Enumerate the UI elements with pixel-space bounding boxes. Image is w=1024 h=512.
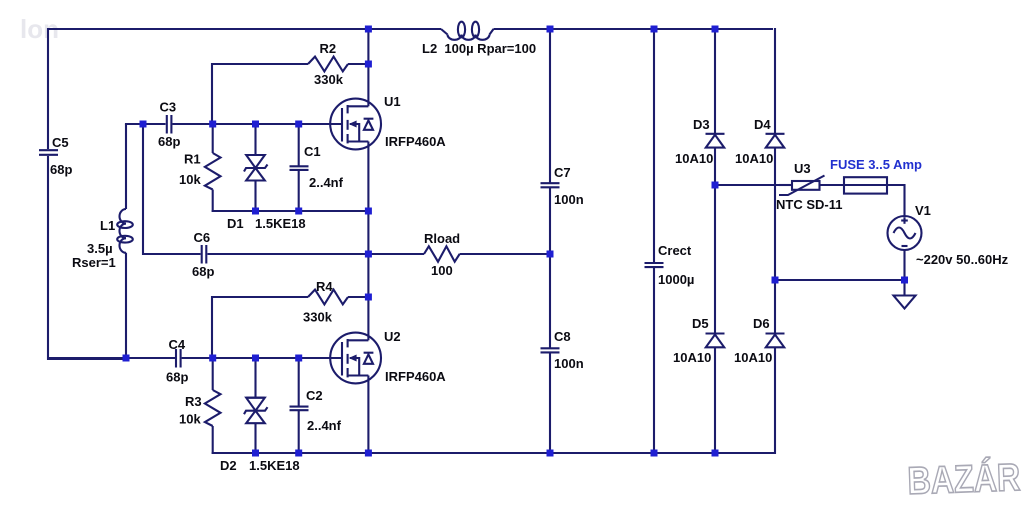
wire V1 column top	[903, 184, 905, 216]
wire top rail right of L2	[494, 28, 774, 30]
wire D6 to bottom rail corner	[774, 347, 776, 454]
wire lower gate row right	[182, 357, 342, 359]
svg-text:1.5KE18: 1.5KE18	[249, 458, 300, 473]
inductor L2	[422, 22, 536, 56]
wire V1 return row	[775, 279, 905, 281]
junction lower gate row D2	[252, 355, 259, 362]
wire D3/D5 column middle	[714, 148, 716, 334]
svg-text:10A10: 10A10	[673, 350, 711, 365]
diode D5	[673, 316, 725, 365]
capacitor C7	[541, 165, 584, 207]
wire top rail left of L2	[48, 28, 441, 30]
svg-text:10A10: 10A10	[735, 151, 773, 166]
wire R2 row	[212, 64, 308, 125]
svg-text:10k: 10k	[179, 172, 201, 187]
junction upper gate row C6 feed	[140, 121, 147, 128]
svg-text:1000µ: 1000µ	[658, 272, 694, 287]
wire left column upper	[47, 28, 49, 149]
svg-text:R2: R2	[320, 41, 337, 56]
svg-text:10A10: 10A10	[734, 350, 772, 365]
svg-text:C2: C2	[306, 388, 323, 403]
svg-text:R4: R4	[316, 279, 333, 294]
junction upper gate row D1	[252, 121, 259, 128]
resistor R1	[179, 124, 221, 212]
junction mid rail drain column	[365, 251, 372, 258]
watermark BAZAR bottom-right	[907, 455, 1021, 502]
svg-text:IRFP460A: IRFP460A	[385, 134, 446, 149]
svg-text:D1: D1	[227, 216, 244, 231]
svg-text:2..4nf: 2..4nf	[307, 418, 342, 433]
junction lower gate row R3	[209, 355, 216, 362]
junction bottom rail D2	[252, 450, 259, 457]
svg-text:U3: U3	[794, 161, 811, 176]
wire C7/C8 column bottom	[549, 353, 551, 453]
svg-text:C5: C5	[52, 135, 69, 150]
wire Crect column top	[653, 28, 655, 262]
junction upper gate row R1	[209, 121, 216, 128]
svg-text:D2: D2	[220, 458, 237, 473]
svg-text:10k: 10k	[179, 412, 201, 427]
junction lower gate row L1	[123, 355, 130, 362]
wire mid rail C6 to junction	[208, 253, 425, 255]
wire upper gate row left	[126, 124, 166, 125]
svg-text:FUSE 3..5 Amp: FUSE 3..5 Amp	[830, 157, 922, 172]
capacitor C4	[166, 337, 188, 385]
junction top rail at C7 column	[547, 26, 554, 33]
wire mid rail Rload to C7 column	[460, 253, 550, 255]
junction upper source rail drain column	[365, 208, 372, 215]
wire C7/C8 column middle	[549, 188, 551, 348]
junction top rail at Crect column	[651, 26, 658, 33]
wire D4/D6 column middle	[774, 148, 776, 334]
diode D6	[734, 316, 785, 365]
svg-text:L2 100µ Rpar=100: L2 100µ Rpar=100	[422, 41, 536, 56]
svg-text:10A10: 10A10	[675, 151, 713, 166]
MOSFET U2	[330, 329, 446, 384]
junction V1 return D6	[772, 277, 779, 284]
junction R4 drain	[365, 294, 372, 301]
capacitor Crect	[645, 243, 695, 287]
junction bottom rail C8 column	[547, 450, 554, 457]
junction upper gate row C1	[295, 121, 302, 128]
wire lower gate row left	[48, 357, 175, 359]
junction AC node D3	[712, 182, 719, 189]
svg-text:68p: 68p	[50, 162, 72, 177]
junction bottom rail D5 column	[712, 450, 719, 457]
wire upper source rail	[212, 210, 369, 212]
junction bottom rail U2 source	[365, 450, 372, 457]
capacitor C5	[39, 135, 72, 177]
wire L1 column top	[125, 124, 127, 209]
svg-text:100n: 100n	[554, 192, 584, 207]
wire C7/C8 column top	[549, 28, 551, 183]
svg-text:68p: 68p	[158, 134, 180, 149]
wire U1 drain column	[367, 29, 369, 106]
svg-text:~220v 50..60Hz: ~220v 50..60Hz	[916, 252, 1009, 267]
thermistor U3	[776, 161, 844, 212]
svg-text:330k: 330k	[303, 310, 333, 325]
junction upper source rail C1	[295, 208, 302, 215]
capacitor C6	[192, 230, 214, 279]
svg-text:D6: D6	[753, 316, 770, 331]
junction R2 drain	[365, 61, 372, 68]
svg-text:68p: 68p	[166, 370, 188, 385]
svg-text:Rser=1: Rser=1	[72, 255, 116, 270]
wire AC node row	[715, 184, 779, 186]
svg-text:D3: D3	[693, 117, 710, 132]
resistor R2	[308, 41, 348, 87]
svg-text:C4: C4	[169, 337, 186, 352]
wire C6 feed column	[143, 124, 201, 254]
svg-text:C8: C8	[554, 329, 571, 344]
junction bottom rail C2	[295, 450, 302, 457]
svg-text:1.5KE18: 1.5KE18	[255, 216, 306, 231]
svg-text:C6: C6	[194, 230, 211, 245]
capacitor C3	[158, 100, 180, 150]
fuse F1	[830, 157, 922, 194]
resistor R3	[179, 358, 221, 454]
junction mid rail C7 column	[547, 251, 554, 258]
svg-text:D4: D4	[754, 117, 771, 132]
wire R4 to drain column	[348, 296, 368, 298]
TVS diode D2	[220, 358, 300, 473]
wire Crect column bottom	[653, 268, 655, 453]
junction V1 return ground	[901, 277, 908, 284]
svg-text:Crect: Crect	[658, 243, 692, 258]
svg-text:NTC SD-11: NTC SD-11	[776, 197, 842, 212]
MOSFET U1	[330, 94, 446, 149]
diode D4	[735, 28, 785, 166]
capacitor C2	[290, 358, 342, 454]
svg-text:C1: C1	[304, 144, 321, 159]
AC source V1	[888, 203, 1009, 267]
svg-text:R1: R1	[184, 152, 201, 167]
junction top rail at D3 column	[712, 26, 719, 33]
wire D5 to bottom rail	[714, 347, 716, 453]
svg-text:D5: D5	[692, 316, 709, 331]
svg-text:3.5µ: 3.5µ	[87, 241, 113, 256]
svg-text:Rload: Rload	[424, 231, 460, 246]
wire V1 column bottom	[903, 250, 905, 296]
resistor Rload	[424, 231, 460, 278]
wire L1 column bottom	[125, 253, 127, 359]
junction top rail at drain column	[365, 26, 372, 33]
svg-text:R3: R3	[185, 394, 202, 409]
resistor R4	[303, 279, 348, 325]
svg-text:330k: 330k	[314, 72, 344, 87]
inductor L1	[72, 209, 133, 270]
svg-text:C3: C3	[160, 100, 177, 115]
svg-text:100: 100	[431, 263, 453, 278]
wire R2 to drain column	[348, 63, 368, 65]
svg-text:100n: 100n	[554, 356, 584, 371]
wire left column lower	[48, 156, 124, 359]
wire upper gate row right	[173, 123, 343, 125]
junction upper source rail D1	[252, 208, 259, 215]
capacitor C8	[541, 329, 584, 371]
svg-text:U2: U2	[384, 329, 401, 344]
svg-text:68p: 68p	[192, 264, 214, 279]
svg-text:IRFP460A: IRFP460A	[385, 369, 446, 384]
wire U2 source column	[367, 376, 369, 454]
diode D3	[675, 28, 725, 166]
svg-text:2..4nf: 2..4nf	[309, 175, 344, 190]
svg-text:L1: L1	[100, 218, 115, 233]
wire R4 left column	[211, 296, 213, 359]
capacitor C1	[290, 124, 344, 212]
svg-text:U1: U1	[384, 94, 401, 109]
TVS diode D1	[227, 124, 306, 231]
svg-text:C7: C7	[554, 165, 571, 180]
svg-text:V1: V1	[915, 203, 931, 218]
wire U1 source to U2 drain column	[367, 142, 369, 341]
ground	[894, 296, 916, 309]
junction bottom rail Crect column	[651, 450, 658, 457]
svg-text:BAZÁR: BAZÁR	[907, 455, 1021, 502]
wire R4 row	[212, 296, 308, 298]
junction lower gate row C2	[295, 355, 302, 362]
wire bottom rail	[212, 452, 775, 454]
